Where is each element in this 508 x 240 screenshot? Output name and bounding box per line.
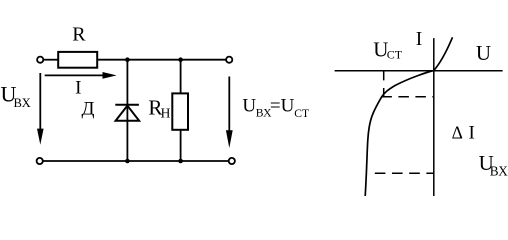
svg-text:Д: Д — [82, 99, 95, 120]
svg-text:Н: Н — [161, 106, 171, 121]
svg-text:R: R — [72, 24, 86, 46]
svg-text:ВХ: ВХ — [490, 164, 508, 179]
svg-text:I: I — [469, 123, 475, 144]
svg-text:I: I — [75, 77, 81, 98]
svg-text:=U: =U — [270, 95, 295, 116]
svg-text:U: U — [476, 41, 491, 65]
svg-text:ВХ: ВХ — [14, 96, 31, 110]
svg-text:Δ: Δ — [452, 123, 463, 143]
svg-text:I: I — [416, 29, 423, 50]
svg-text:U: U — [242, 95, 256, 116]
svg-text:СТ: СТ — [387, 47, 403, 61]
svg-text:СТ: СТ — [294, 107, 309, 120]
